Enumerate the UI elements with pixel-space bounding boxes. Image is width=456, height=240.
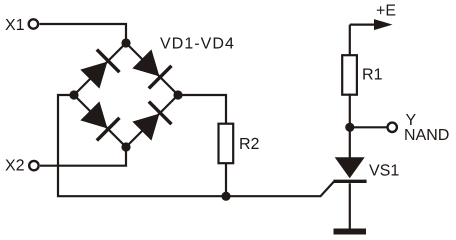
power arrow +E [350, 19, 393, 30]
junction node bottom rail [221, 192, 230, 201]
junction node bridge bottom [121, 142, 130, 151]
wire R2 to bottom rail [225, 163, 227, 197]
wire +E to R1 [349, 25, 351, 56]
ground [334, 229, 367, 235]
diode VD1 [79, 50, 120, 91]
junction node bridge right [173, 90, 182, 99]
resistor R2 [219, 124, 234, 164]
junction node Y [345, 123, 354, 132]
terminal Y [388, 123, 397, 132]
wire bottom rail to thyristor gate [226, 182, 334, 197]
wire bridge edge top-right [126, 43, 178, 95]
thyristor VS1 [333, 157, 366, 181]
label VD1-VD4 [160, 38, 233, 49]
label X2 [5, 159, 23, 170]
diode VD4 [131, 102, 172, 143]
label VS1 [369, 164, 398, 175]
resistor R1 [342, 55, 357, 94]
label X1 [5, 19, 23, 30]
wire bridge right node to R2 [178, 95, 226, 125]
diode VD2 [131, 48, 172, 89]
wire bridge edge left-bottom [74, 95, 126, 147]
wire R1 to thyristor anode [349, 94, 351, 158]
wire X2 to bridge bottom [40, 147, 126, 166]
label R2 [240, 138, 258, 149]
terminal X2 [29, 161, 38, 170]
label +E [377, 5, 396, 16]
terminal X1 [29, 19, 38, 28]
junction node bridge top [121, 38, 130, 47]
wire bridge left node to bottom rail [58, 95, 226, 196]
wire junction to terminal Y [350, 126, 388, 128]
wire thyristor cathode to ground [349, 183, 351, 228]
diode VD3 [79, 100, 120, 141]
wire X1 to bridge top [40, 24, 127, 43]
wire bridge edge left-top [74, 43, 126, 95]
label R1 [363, 69, 381, 80]
junction node bridge left [69, 90, 78, 99]
wire bridge edge bottom-right [126, 95, 178, 147]
label NAND [405, 129, 448, 140]
label Y [406, 114, 416, 125]
